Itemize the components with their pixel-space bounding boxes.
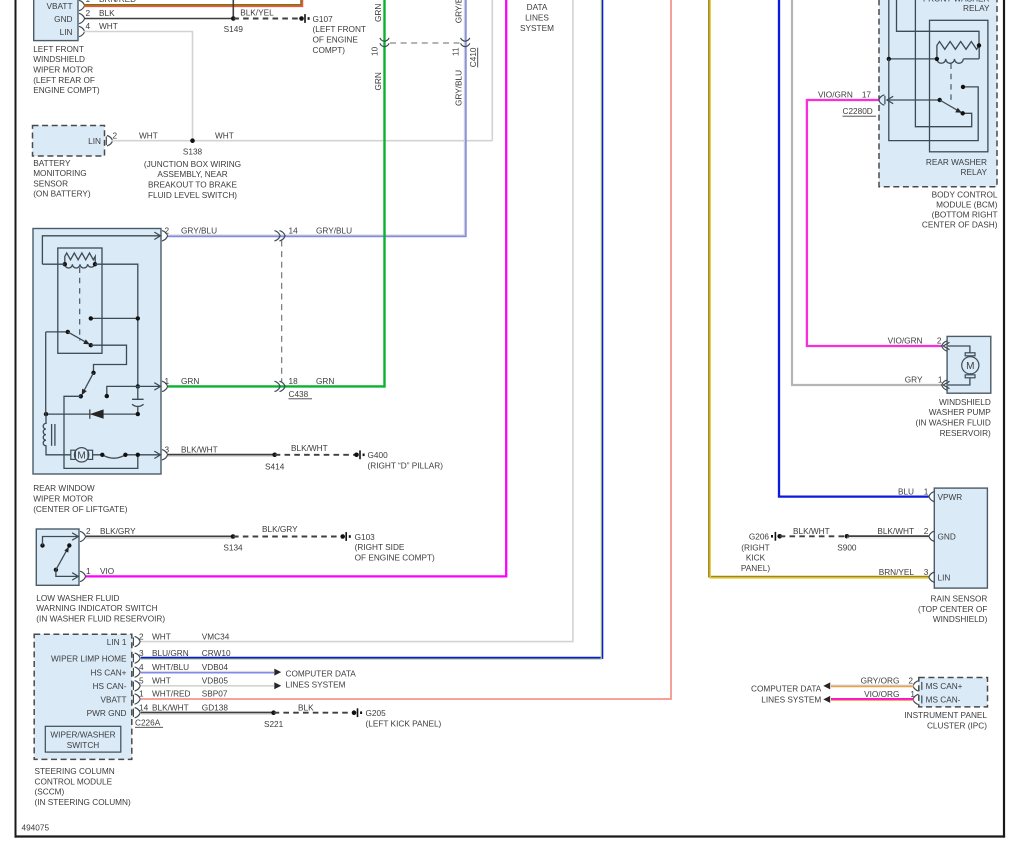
svg-text:LINES: LINES (525, 14, 549, 23)
wire WHT VDB05 (HS CAN-) (141, 685, 274, 687)
svg-text:GD138: GD138 (202, 703, 229, 712)
resistor (rear wiper motor) (65, 253, 95, 264)
svg-text:494075: 494075 (22, 824, 50, 833)
brush arc (102, 455, 125, 458)
wire BLK/WHT from S900 to rain sensor GND (847, 535, 929, 537)
svg-text:17: 17 (862, 91, 872, 100)
switch 2 (91, 371, 95, 375)
svg-text:LINES SYSTEM: LINES SYSTEM (761, 696, 821, 705)
svg-text:(BOTTOM RIGHT: (BOTTOM RIGHT (932, 210, 998, 219)
svg-text:STEERING COLUMN: STEERING COLUMN (35, 767, 115, 776)
svg-text:FLUID LEVEL SWITCH): FLUID LEVEL SWITCH) (148, 191, 237, 200)
splice S149 (231, 16, 236, 21)
svg-text:WIPER MOTOR: WIPER MOTOR (33, 66, 93, 75)
svg-text:GRY/BLU: GRY/BLU (316, 227, 352, 236)
wire BLK/WHT dashed from G206 to S900 (780, 535, 847, 537)
svg-text:S221: S221 (264, 720, 284, 729)
svg-text:BLK/GRY: BLK/GRY (100, 527, 136, 536)
svg-text:4: 4 (86, 22, 91, 31)
svg-text:2: 2 (86, 527, 91, 536)
module box: body control module BCM (clipped at top) (879, 0, 997, 187)
svg-text:(RIGHT SIDE: (RIGHT SIDE (355, 543, 405, 552)
svg-text:(LEFT FRONT: (LEFT FRONT (313, 25, 366, 34)
splice S221 (271, 710, 276, 715)
ground G400 (354, 450, 443, 470)
svg-text:BREAKOUT TO BRAKE: BREAKOUT TO BRAKE (148, 181, 237, 190)
svg-text:RAIN SENSOR: RAIN SENSOR (931, 595, 988, 604)
svg-text:G103: G103 (355, 533, 376, 542)
svg-text:14: 14 (289, 227, 299, 236)
svg-text:ENGINE COMPT): ENGINE COMPT) (33, 86, 100, 95)
svg-text:LIN: LIN (938, 574, 951, 583)
svg-text:GRY/ORG: GRY/ORG (861, 677, 900, 686)
svg-text:VIO/GRN: VIO/GRN (818, 91, 853, 100)
splice S138 (144, 138, 241, 199)
svg-text:BLK: BLK (99, 9, 115, 18)
svg-text:(RIGHT “D” PILLAR): (RIGHT “D” PILLAR) (368, 462, 444, 471)
svg-text:VIO/GRN: VIO/GRN (888, 337, 923, 346)
svg-text:FRONT WASHER: FRONT WASHER (923, 0, 990, 4)
page frame bottom border (15, 835, 1006, 837)
svg-text:RELAY: RELAY (963, 4, 990, 13)
svg-text:1: 1 (910, 690, 915, 699)
label: BATTERY MONITORING SENSOR (ON BATTERY) (33, 159, 91, 199)
wire internal BCM: front relay lead 3 to rear relay contact (915, 0, 971, 127)
wire internal: switch1 to switch2 (91, 345, 127, 373)
svg-text:(SCCM): (SCCM) (35, 788, 65, 797)
svg-text:GRY: GRY (905, 376, 923, 385)
inductor with core (43, 414, 71, 455)
svg-text:SYSTEM: SYSTEM (520, 24, 554, 33)
svg-text:2: 2 (937, 337, 942, 346)
svg-text:GRN: GRN (316, 377, 334, 386)
svg-text:2: 2 (139, 632, 144, 641)
svg-text:REAR WINDOW: REAR WINDOW (33, 484, 95, 493)
svg-text:BLK/WHT: BLK/WHT (291, 444, 328, 453)
svg-text:SWITCH: SWITCH (67, 741, 100, 750)
svg-text:WHT/RED: WHT/RED (152, 690, 191, 699)
svg-text:BRN/YEL: BRN/YEL (879, 568, 915, 577)
svg-text:REAR WASHER: REAR WASHER (926, 158, 987, 167)
svg-text:(TOP CENTER OF: (TOP CENTER OF (918, 605, 987, 614)
svg-text:KICK: KICK (746, 554, 766, 563)
rear washer relay resistor (937, 42, 979, 59)
wire internal: left rail (45, 332, 47, 414)
wire internal: motor to pin 3 (93, 454, 160, 456)
svg-text:18: 18 (289, 377, 299, 386)
svg-text:G400: G400 (368, 451, 389, 460)
svg-text:BRN/RED: BRN/RED (99, 0, 136, 4)
wire WHT VMC34 (LIN 1) to riser (141, 0, 573, 642)
wire VIO/ORG MS CAN- (831, 698, 914, 700)
wire BLK/WHT from pin 3 to splice S414 (168, 454, 275, 456)
svg-text:HS CAN-: HS CAN- (93, 682, 127, 691)
BCM pin 17 (879, 95, 885, 105)
svg-text:WHT/BLU: WHT/BLU (152, 663, 189, 672)
svg-text:C226A: C226A (135, 718, 161, 727)
svg-text:1: 1 (924, 487, 929, 496)
svg-text:WHT: WHT (139, 131, 158, 140)
relay box: rear washer relay (930, 20, 988, 152)
svg-text:BLK/WHT: BLK/WHT (152, 703, 189, 712)
dashed actuator link (79, 268, 81, 341)
svg-text:VMC34: VMC34 (202, 632, 230, 641)
svg-text:WINDSHIELD: WINDSHIELD (939, 398, 991, 407)
pin arcs rear wiper motor (162, 231, 168, 241)
svg-text:BODY CONTROL: BODY CONTROL (932, 191, 998, 200)
svg-text:WHT: WHT (152, 677, 171, 686)
wire WHT from LIN pin down to S138 (84, 32, 193, 141)
wire BLK vertical from top into S149 (232, 0, 234, 19)
wire BLK/WHT dashed to ground G400 (275, 454, 357, 456)
svg-text:VIO/ORG: VIO/ORG (864, 690, 899, 699)
svg-text:ASSEMBLY, NEAR: ASSEMBLY, NEAR (157, 170, 227, 179)
wire internal: pin 1 feed (138, 385, 160, 387)
svg-text:COMPUTER DATA: COMPUTER DATA (286, 670, 357, 679)
label: INSTRUMENT PANEL CLUSTER (IPC) (904, 711, 987, 730)
wire VIO to riser (86, 0, 506, 576)
svg-text:WASHER PUMP: WASHER PUMP (929, 408, 992, 417)
svg-text:COMPUTER DATA: COMPUTER DATA (751, 685, 822, 694)
label: RAIN SENSOR (TOP CENTER OF WINDSHIELD) (918, 595, 988, 625)
svg-text:CONTROL MODULE: CONTROL MODULE (35, 777, 113, 786)
svg-text:WIPER MOTOR: WIPER MOTOR (33, 495, 93, 504)
svg-text:LOW WASHER FLUID: LOW WASHER FLUID (36, 594, 119, 603)
wire BLU/GRN CRW10 (wiper limp home) to riser (141, 0, 602, 658)
svg-text:4: 4 (139, 663, 144, 672)
label: REAR WINDOW WIPER MOTOR (CENTER OF LIFTGATE) (33, 484, 128, 514)
wire BLK/GRY dashed to ground G103 (233, 536, 343, 538)
ground G103 (340, 532, 435, 562)
connector C438 dashed link (281, 241, 283, 382)
label: WINDSHIELD WASHER PUMP (915, 398, 991, 438)
svg-text:BLK/WHT: BLK/WHT (181, 446, 218, 455)
wire internal BCM: front relay lead 1 (888, 0, 890, 59)
inline connector C438 pin 18 (275, 381, 286, 391)
rear relay switch arm (940, 100, 961, 112)
wire GRY/ORG MS CAN+ (831, 685, 914, 687)
svg-text:GRN: GRN (374, 72, 383, 90)
module box: battery monitoring sensor (33, 126, 113, 157)
svg-text:BLK/GRY: BLK/GRY (262, 525, 298, 534)
svg-text:BLK/YEL: BLK/YEL (240, 9, 274, 18)
svg-text:GND: GND (938, 533, 956, 542)
inline connector C438 pin 14 (275, 231, 286, 241)
svg-text:LINES SYSTEM: LINES SYSTEM (286, 680, 346, 689)
wire BRN/YEL riser to rain sensor (709, 0, 929, 577)
wire internal: stub contact (107, 386, 138, 396)
svg-text:(RIGHT: (RIGHT (741, 543, 769, 552)
wire BRN/RED (orange, to top of page) (84, 0, 301, 5)
module box: windshield washer pump (942, 336, 991, 393)
svg-text:CRW10: CRW10 (202, 649, 231, 658)
svg-text:C410: C410 (469, 47, 478, 67)
svg-text:BLU/GRN: BLU/GRN (152, 649, 189, 658)
wire BLK/YEL dashed to ground G107 (233, 18, 301, 20)
svg-text:S149: S149 (224, 25, 244, 34)
svg-text:3: 3 (165, 446, 170, 455)
label: LOW WASHER FLUID WARNING INDICATOR SWITCH (36, 594, 165, 624)
wire WHT/RED SBP07 (VBATT) to riser (141, 0, 671, 699)
svg-text:OF ENGINE COMPT): OF ENGINE COMPT) (355, 554, 435, 563)
module box: rain sensor (929, 488, 987, 588)
svg-text:DATA: DATA (527, 3, 548, 12)
switch 1 (park switch) (46, 331, 68, 333)
wire BLK/GRY to splice S134 (86, 535, 233, 537)
svg-text:BLK/WHT: BLK/WHT (793, 527, 830, 536)
capacitor (132, 386, 144, 414)
svg-text:(LEFT REAR OF: (LEFT REAR OF (33, 76, 95, 85)
svg-text:G205: G205 (366, 709, 387, 718)
svg-text:GRY/BLU: GRY/BLU (455, 0, 464, 23)
svg-text:M: M (77, 450, 85, 461)
svg-text:VPWR: VPWR (938, 493, 963, 502)
ground G107 (299, 14, 366, 55)
svg-text:C438: C438 (289, 390, 309, 399)
svg-text:CENTER OF DASH): CENTER OF DASH) (922, 220, 998, 229)
svg-text:G107: G107 (313, 15, 334, 24)
svg-text:2: 2 (86, 9, 91, 18)
rear relay upper contact loop (889, 59, 978, 141)
svg-text:S138: S138 (183, 148, 203, 157)
node: coil right (93, 262, 97, 266)
wire internal: pin 2 feed (42, 236, 160, 264)
svg-text:WINDSHIELD: WINDSHIELD (33, 55, 85, 64)
svg-text:HS CAN+: HS CAN+ (91, 669, 127, 678)
svg-text:LIN 1: LIN 1 (107, 638, 127, 647)
label: STEERING COLUMN CONTROL MODULE (SCCM) (35, 767, 132, 807)
svg-text:2: 2 (165, 227, 170, 236)
svg-text:S414: S414 (265, 462, 285, 471)
svg-text:S134: S134 (223, 544, 243, 553)
ground G206 (741, 532, 782, 573)
svg-text:PWR GND: PWR GND (87, 709, 127, 718)
svg-text:RELAY: RELAY (961, 168, 988, 177)
wire GRY riser to washer pump (792, 0, 942, 385)
svg-text:(JUNCTION BOX WIRING: (JUNCTION BOX WIRING (144, 160, 241, 169)
svg-text:GRN: GRN (374, 4, 383, 22)
page frame left border (15, 0, 17, 838)
svg-text:3: 3 (924, 568, 929, 577)
wire GRY/BLU from pin 2 to riser (168, 0, 465, 235)
svg-text:OF ENGINE: OF ENGINE (313, 36, 359, 45)
svg-text:5: 5 (139, 677, 144, 686)
svg-text:1: 1 (938, 376, 943, 385)
wire GRN from pin 1 to riser (168, 385, 385, 387)
svg-text:PANEL): PANEL) (741, 564, 770, 573)
svg-text:1: 1 (86, 0, 91, 4)
svg-text:CLUSTER (IPC): CLUSTER (IPC) (927, 722, 987, 731)
svg-text:LEFT FRONT: LEFT FRONT (33, 45, 84, 54)
svg-text:MODULE (BCM): MODULE (BCM) (936, 201, 998, 210)
svg-text:(IN STEERING COLUMN): (IN STEERING COLUMN) (35, 798, 132, 807)
module box: rear window wiper motor (33, 229, 161, 475)
svg-text:MONITORING: MONITORING (33, 169, 86, 178)
diode (46, 413, 138, 415)
svg-text:14: 14 (139, 703, 149, 712)
svg-text:3: 3 (139, 649, 144, 658)
svg-text:1: 1 (165, 377, 170, 386)
svg-text:2: 2 (113, 131, 118, 140)
connector C410 pin 10 on GRN riser (380, 38, 389, 47)
svg-text:VDB04: VDB04 (202, 663, 229, 672)
svg-text:M: M (966, 361, 974, 372)
connector C410 dashed link (390, 42, 460, 44)
splice S414 (272, 453, 277, 458)
dashed actuator link (950, 64, 952, 104)
svg-text:WIPER LIMP HOME: WIPER LIMP HOME (51, 655, 127, 664)
svg-text:GRY/BLU: GRY/BLU (455, 70, 464, 106)
connector C410 pin 11 on GRY/BLU riser (461, 38, 470, 47)
svg-text:LIN: LIN (60, 28, 73, 37)
wire WHT from battery monitoring sensor through S138 to riser (112, 140, 492, 142)
label: LEFT FRONT WINDSHIELD WIPER MOTOR (LEFT REAR OF ENGINE COMPT) (33, 45, 100, 95)
svg-text:GRY/BLU: GRY/BLU (181, 227, 217, 236)
motor M (rear wiper) (71, 448, 93, 462)
node: pin 1 junction (136, 384, 140, 388)
svg-text:WARNING INDICATOR SWITCH: WARNING INDICATOR SWITCH (36, 604, 157, 613)
ground G205 (352, 708, 442, 728)
wire WHT riser to top of page (491, 0, 493, 141)
svg-text:SENSOR: SENSOR (33, 179, 68, 188)
wire internal: coil junction to main riser (42, 264, 137, 386)
svg-text:2: 2 (924, 527, 929, 536)
wire VIO/GRN from BCM pin 17 to washer pump (807, 100, 942, 346)
module box: low washer fluid warning indicator switch (36, 529, 85, 585)
svg-text:1: 1 (139, 690, 144, 699)
coil winding under resistor (65, 264, 95, 268)
svg-text:C2280D: C2280D (843, 107, 873, 116)
svg-text:COMPT): COMPT) (313, 46, 346, 55)
svg-text:WIPER/WASHER: WIPER/WASHER (50, 731, 115, 740)
svg-text:(IN WASHER FLUID RESERVOIR): (IN WASHER FLUID RESERVOIR) (36, 614, 165, 623)
label: COMPUTER DATA LINES SYSTEM (top, clipped) (520, 3, 554, 33)
svg-text:MS CAN-: MS CAN- (926, 696, 961, 705)
svg-text:GND: GND (54, 15, 72, 24)
wire internal: switch2 bottom loop to pin3 line (64, 396, 138, 468)
svg-text:BLK: BLK (298, 703, 314, 712)
module box: steering column control module (SCCM) (34, 634, 140, 759)
svg-text:11: 11 (451, 47, 460, 56)
svg-text:10: 10 (371, 46, 380, 56)
svg-text:MS CAN+: MS CAN+ (926, 682, 963, 691)
svg-text:SBP07: SBP07 (202, 690, 228, 699)
module box: left front windshield wiper motor (34, 0, 85, 41)
svg-text:1: 1 (86, 567, 91, 576)
wire BLK from GND pin to splice S149 (84, 18, 233, 20)
svg-text:(IN WASHER FLUID: (IN WASHER FLUID (915, 419, 990, 428)
wire BLK dashed to ground G205 (274, 712, 354, 714)
label: BODY CONTROL MODULE (BCM) (922, 191, 998, 230)
wire internal: coil feed (889, 58, 937, 60)
svg-text:VIO: VIO (100, 567, 115, 576)
wire internal BCM: front relay lead 2 to rear relay coil (897, 0, 980, 45)
svg-text:INSTRUMENT PANEL: INSTRUMENT PANEL (904, 711, 987, 720)
svg-text:WHT: WHT (215, 131, 234, 140)
page frame right border (1003, 0, 1005, 838)
svg-text:G206: G206 (749, 533, 770, 542)
rear washer relay coil winding (937, 59, 979, 63)
svg-text:S900: S900 (837, 543, 857, 552)
svg-text:VBATT: VBATT (47, 2, 73, 11)
wire WHT/BLU VDB04 (HS CAN+) (141, 671, 274, 673)
svg-text:BATTERY: BATTERY (33, 159, 71, 168)
node: coil left (63, 262, 67, 266)
splice S134 (231, 534, 236, 539)
svg-text:WHT: WHT (152, 632, 171, 641)
svg-text:(ON BATTERY): (ON BATTERY) (33, 190, 91, 199)
rear relay switch common from pin 17 (887, 99, 940, 101)
svg-text:RESERVOIR): RESERVOIR) (940, 429, 991, 438)
svg-text:LIN: LIN (88, 137, 101, 146)
svg-text:WINDSHIELD): WINDSHIELD) (933, 615, 988, 624)
wire internal: crossbar (91, 317, 138, 319)
wire BLU riser to rain sensor (779, 0, 929, 497)
svg-text:BLU: BLU (898, 487, 914, 496)
svg-text:(LEFT KICK PANEL): (LEFT KICK PANEL) (366, 719, 442, 728)
svg-text:GRN: GRN (181, 377, 199, 386)
svg-text:VDB05: VDB05 (202, 677, 229, 686)
svg-text:BLK/WHT: BLK/WHT (877, 527, 914, 536)
svg-text:2: 2 (908, 677, 913, 686)
svg-text:(CENTER OF LIFTGATE): (CENTER OF LIFTGATE) (33, 505, 128, 514)
wire BLK/WHT GD138 (PWR GND) to splice S221 (141, 712, 274, 714)
svg-text:VBATT: VBATT (101, 695, 127, 704)
svg-text:WHT: WHT (99, 22, 118, 31)
module box: instrument panel cluster (IPC) (913, 678, 988, 707)
splice S900 (845, 534, 850, 539)
